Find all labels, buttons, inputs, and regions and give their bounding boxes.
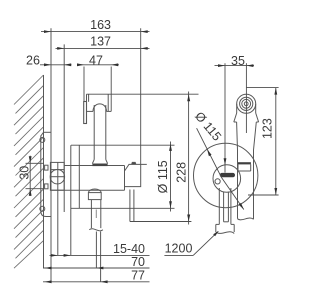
svg-text:228: 228 xyxy=(175,162,189,183)
svg-text:15-40: 15-40 xyxy=(113,242,145,256)
svg-text:47: 47 xyxy=(89,53,103,67)
svg-text:30: 30 xyxy=(17,166,31,180)
svg-text:77: 77 xyxy=(131,269,145,283)
svg-text:26: 26 xyxy=(26,53,40,67)
svg-text:123: 123 xyxy=(261,118,275,139)
svg-text:35: 35 xyxy=(231,54,245,68)
svg-text:70: 70 xyxy=(131,255,145,269)
svg-text:1200: 1200 xyxy=(165,242,193,256)
svg-text:163: 163 xyxy=(90,18,111,32)
svg-text:Ø 115: Ø 115 xyxy=(156,160,170,193)
svg-text:137: 137 xyxy=(90,35,111,49)
